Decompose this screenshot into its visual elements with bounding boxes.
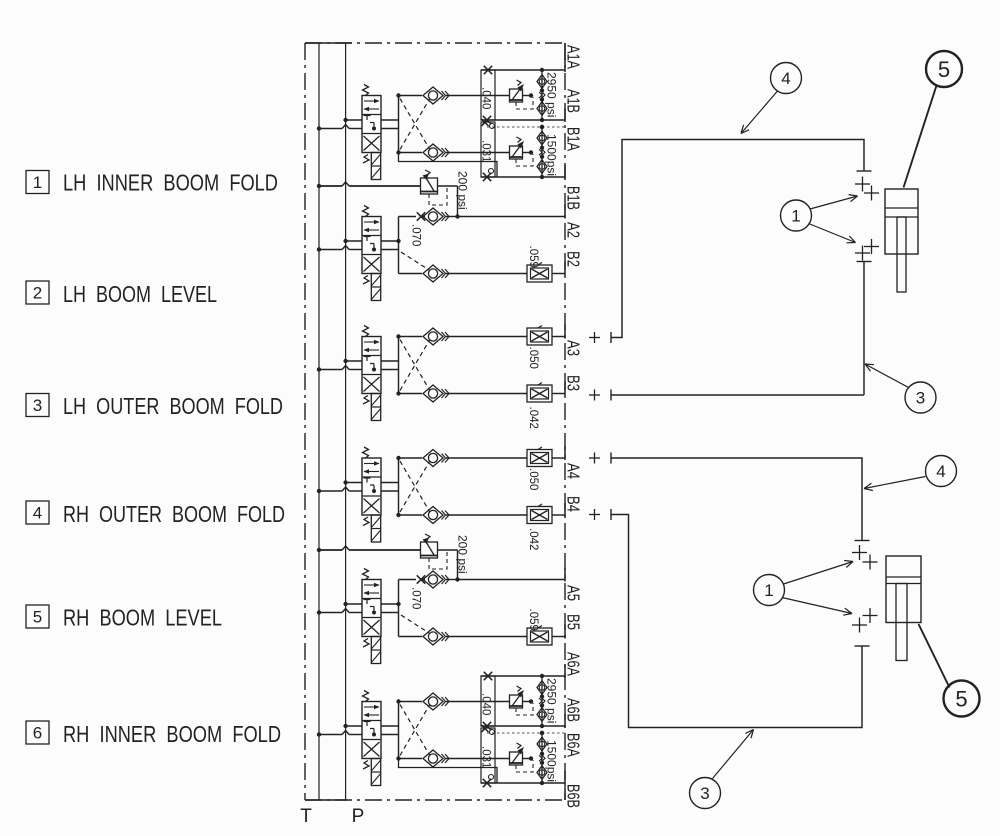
- svg-text:1: 1: [791, 207, 800, 226]
- svg-text:.040: .040: [480, 87, 492, 109]
- svg-text:A6B: A6B: [564, 698, 584, 722]
- svg-text:B2: B2: [564, 251, 584, 267]
- svg-text:2: 2: [33, 284, 42, 303]
- svg-text:A1A: A1A: [564, 45, 584, 69]
- svg-text:B3: B3: [564, 375, 584, 391]
- svg-text:T: T: [300, 806, 312, 827]
- svg-text:B4: B4: [564, 496, 584, 512]
- svg-text:4: 4: [936, 462, 945, 481]
- svg-text:1500psi: 1500psi: [545, 134, 559, 176]
- svg-text:.042: .042: [527, 528, 539, 550]
- svg-text:.042: .042: [527, 407, 539, 429]
- svg-text:A1B: A1B: [564, 89, 584, 113]
- svg-text:.031: .031: [480, 746, 492, 768]
- svg-text:A5: A5: [564, 585, 584, 601]
- svg-text:RH INNER BOOM FOLD: RH INNER BOOM FOLD: [63, 721, 281, 747]
- svg-text:RH BOOM LEVEL: RH BOOM LEVEL: [63, 605, 222, 631]
- svg-text:5: 5: [938, 57, 950, 82]
- svg-text:.040: .040: [480, 693, 492, 715]
- svg-text:3: 3: [700, 784, 709, 803]
- svg-text:4: 4: [781, 69, 790, 88]
- svg-text:.031: .031: [480, 140, 492, 162]
- svg-text:A6A: A6A: [564, 652, 584, 676]
- svg-text:.070: .070: [410, 224, 422, 246]
- svg-text:.070: .070: [410, 587, 422, 609]
- svg-text:3: 3: [916, 389, 925, 408]
- svg-text:3: 3: [33, 396, 42, 415]
- svg-text:4: 4: [33, 504, 42, 523]
- svg-text:B5: B5: [564, 614, 584, 630]
- svg-text:B1A: B1A: [564, 127, 584, 151]
- svg-text:.050: .050: [527, 347, 539, 369]
- svg-text:.059: .059: [527, 609, 539, 631]
- svg-text:5: 5: [33, 608, 42, 627]
- svg-text:200 psi: 200 psi: [456, 535, 470, 574]
- svg-text:5: 5: [955, 686, 967, 711]
- svg-text:.050: .050: [527, 468, 539, 490]
- svg-text:B6A: B6A: [564, 733, 584, 757]
- svg-text:LH OUTER BOOM FOLD: LH OUTER BOOM FOLD: [63, 393, 283, 419]
- svg-text:2950 psi: 2950 psi: [545, 72, 559, 117]
- svg-text:RH OUTER BOOM FOLD: RH OUTER BOOM FOLD: [63, 501, 285, 527]
- svg-text:A4: A4: [564, 463, 584, 479]
- svg-text:1: 1: [33, 173, 42, 192]
- svg-text:B1B: B1B: [564, 186, 584, 210]
- svg-text:2950 psi: 2950 psi: [545, 678, 559, 723]
- svg-text:.059: .059: [527, 246, 539, 268]
- svg-text:A3: A3: [564, 340, 584, 356]
- svg-text:6: 6: [33, 724, 42, 743]
- svg-text:P: P: [352, 806, 365, 827]
- svg-text:A2: A2: [564, 222, 584, 238]
- svg-text:LH BOOM LEVEL: LH BOOM LEVEL: [63, 281, 217, 307]
- svg-text:1: 1: [764, 581, 773, 600]
- svg-text:1500psi: 1500psi: [545, 740, 559, 782]
- svg-text:LH INNER BOOM FOLD: LH INNER BOOM FOLD: [63, 170, 278, 196]
- svg-text:200 psi: 200 psi: [456, 171, 470, 210]
- svg-text:B6B: B6B: [564, 784, 584, 808]
